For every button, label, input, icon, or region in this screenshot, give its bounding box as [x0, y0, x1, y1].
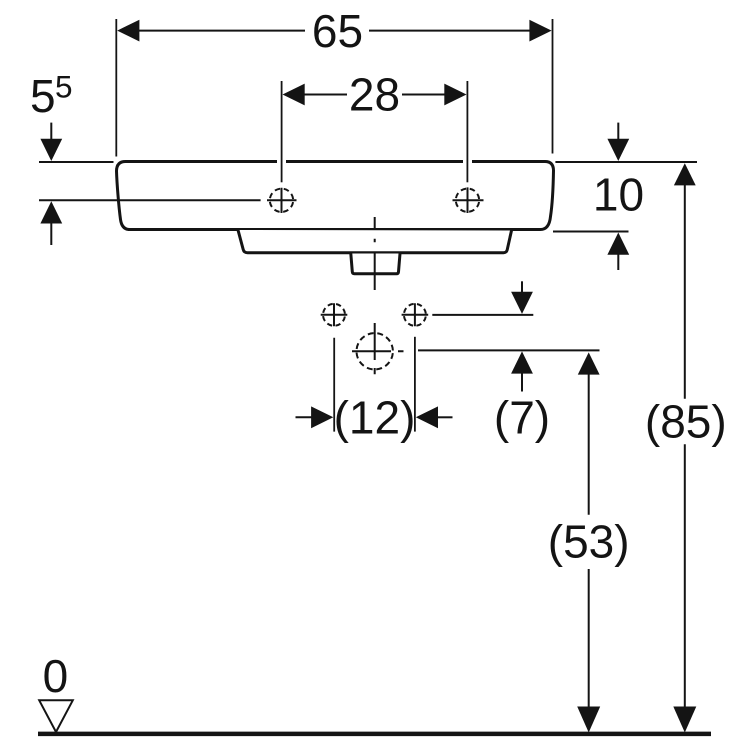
- dim 10 down arrow: [617, 123, 619, 141]
- svg-text:(53): (53): [548, 516, 630, 568]
- dim (85) line lower segment: [684, 444, 686, 713]
- drain outlet: [351, 254, 400, 274]
- lower hole left crosshair: [321, 303, 348, 326]
- dim 65 arrow left: [117, 20, 139, 42]
- dim (53) line upper segment: [588, 373, 590, 515]
- dim (53) line lower segment: [588, 569, 590, 713]
- tap hole left crosshair: [267, 188, 297, 213]
- svg-text:10: 10: [593, 168, 644, 220]
- floor baseline: [38, 732, 711, 737]
- dim (53) up arrow: [578, 352, 600, 374]
- svg-text:(85): (85): [645, 396, 727, 448]
- gap in basin edge at right hole extension: [463, 157, 472, 167]
- dim (12) extension line right: [414, 337, 416, 432]
- dim (7) down arrow: [521, 281, 523, 296]
- dim 5.5 lower reference line: [39, 199, 261, 201]
- dim 5.5 upper reference line: [39, 161, 114, 163]
- main hole center cross: [352, 323, 404, 374]
- svg-text:28: 28: [349, 68, 400, 120]
- svg-text:65: 65: [312, 5, 363, 57]
- dim 28 extension line left: [281, 81, 283, 182]
- dim (7) up arrow: [511, 351, 533, 373]
- dim 28 arrow left: [283, 84, 305, 106]
- dim 65 arrow right: [529, 20, 551, 42]
- gap in basin edge at left hole extension: [277, 157, 286, 167]
- dim (85) up arrow: [674, 163, 696, 185]
- dim (7) upper reference line: [432, 314, 533, 316]
- dim 10 upper reference line: [555, 161, 697, 163]
- lower hole right crosshair: [402, 303, 429, 326]
- svg-text:5: 5: [55, 69, 73, 105]
- dim 10 up arrow: [607, 233, 629, 255]
- dim (53) down arrow: [577, 707, 600, 733]
- tap hole right crosshair: [453, 187, 484, 213]
- dim (12) extension line left: [333, 338, 335, 432]
- dim 65 extension line right: [552, 19, 554, 154]
- dim (85) line upper segment: [684, 184, 686, 399]
- dim (7) lower reference line: [418, 349, 600, 351]
- dim 28 arrow right: [444, 84, 466, 106]
- svg-text:(12): (12): [334, 392, 416, 444]
- dim (12) right arrow: [416, 406, 438, 428]
- dim 28 extension line right: [466, 81, 468, 182]
- dim 5.5 up arrow: [40, 201, 62, 223]
- dim 28 line: [303, 94, 446, 96]
- svg-text:5: 5: [30, 70, 56, 122]
- dim 5.5 down arrow: [50, 123, 52, 141]
- dim 65 line: [138, 30, 531, 32]
- vertical centerline of drain: [374, 217, 376, 290]
- dim (85) down arrow: [673, 707, 696, 733]
- basin second tier: [238, 230, 512, 253]
- main hole dashed circle: [352, 323, 404, 374]
- svg-text:0: 0: [43, 650, 69, 702]
- svg-text:(7): (7): [494, 392, 550, 444]
- basin outline: [117, 162, 554, 230]
- dim (12) left arrow: [296, 416, 314, 418]
- datum triangle: [39, 700, 73, 732]
- dim 10 lower reference line: [553, 231, 629, 233]
- dim 65 extension line left: [115, 19, 117, 157]
